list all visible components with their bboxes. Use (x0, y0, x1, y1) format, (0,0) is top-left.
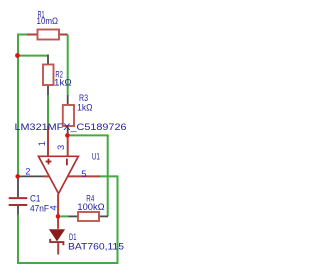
svg-text:2: 2 (25, 165, 30, 176)
svg-text:3: 3 (55, 145, 66, 150)
svg-text:100kΩ: 100kΩ (77, 202, 104, 213)
svg-text:1: 1 (36, 141, 47, 146)
svg-text:U1: U1 (92, 151, 100, 162)
svg-text:BAT760,115: BAT760,115 (68, 242, 124, 253)
svg-text:1kΩ: 1kΩ (77, 103, 92, 114)
svg-text:LM321MFX_C5189726: LM321MFX_C5189726 (15, 122, 127, 133)
svg-text:1kΩ: 1kΩ (54, 77, 72, 88)
svg-text:47nF: 47nF (30, 203, 49, 214)
svg-text:10mΩ: 10mΩ (37, 16, 59, 27)
svg-text:4: 4 (48, 205, 59, 210)
svg-text:5: 5 (81, 168, 86, 179)
